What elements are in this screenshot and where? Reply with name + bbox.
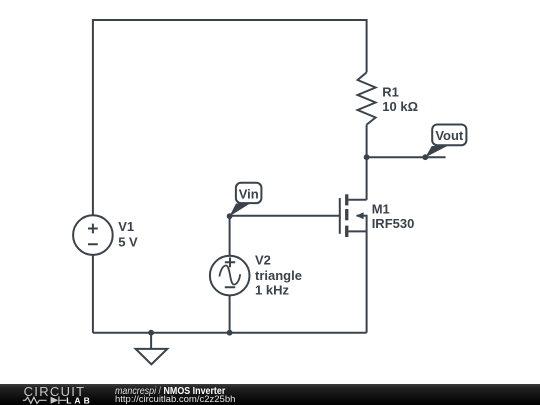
wire left rail lower: [92, 255, 94, 333]
node dot ground: [148, 330, 154, 336]
wire Vout tap: [367, 156, 446, 158]
ground: [150, 333, 152, 349]
resistor R1: [358, 72, 376, 124]
wire Vin to V2: [229, 216, 231, 256]
footer bar: [0, 384, 540, 405]
svg-text:M1: M1: [372, 202, 390, 217]
wire V2 to bottom: [229, 295, 231, 332]
wire right rail upper: [366, 19, 368, 72]
flag Vin box: [236, 183, 262, 203]
svg-text:LAB: LAB: [66, 395, 93, 405]
flag Vout box: [432, 125, 466, 146]
wire body-source rail: [366, 215, 368, 333]
svg-text:IRF530: IRF530: [372, 216, 415, 231]
node dot Vin: [227, 213, 233, 219]
svg-text:5 V: 5 V: [118, 234, 138, 249]
svg-text:V2: V2: [255, 253, 271, 268]
CircuitLab logo: [0, 384, 110, 405]
wire body: [357, 215, 367, 217]
svg-text:10 kΩ: 10 kΩ: [382, 99, 418, 114]
wire drain: [348, 199, 366, 201]
wire right rail mid: [366, 125, 368, 200]
node dot Vout rail: [364, 154, 370, 160]
svg-text:R1: R1: [382, 84, 399, 99]
wire top: [93, 19, 367, 21]
wire bottom: [93, 332, 367, 334]
node dot V2 bottom: [227, 330, 233, 336]
svg-text:Vout: Vout: [435, 128, 464, 143]
transistor M1 gate bar: [339, 198, 341, 234]
wire gate: [230, 215, 340, 217]
voltage source V2: [210, 256, 250, 296]
flag Vin pointer: [229, 204, 250, 217]
svg-text:V1: V1: [118, 219, 134, 234]
transistor M1 channel bars: [345, 194, 348, 205]
footer credit line: [115, 387, 225, 397]
footer url line: [115, 395, 235, 405]
node dot Vout flag: [422, 154, 428, 160]
flag Vout pointer: [425, 146, 447, 157]
wire left rail upper: [92, 19, 94, 215]
voltage source V1: [73, 215, 113, 255]
svg-text:Vin: Vin: [239, 186, 259, 201]
svg-text:1 kHz: 1 kHz: [255, 283, 289, 298]
svg-text:triangle: triangle: [255, 268, 302, 283]
transistor M1 body arrow: [356, 212, 364, 219]
wire source: [348, 230, 366, 232]
